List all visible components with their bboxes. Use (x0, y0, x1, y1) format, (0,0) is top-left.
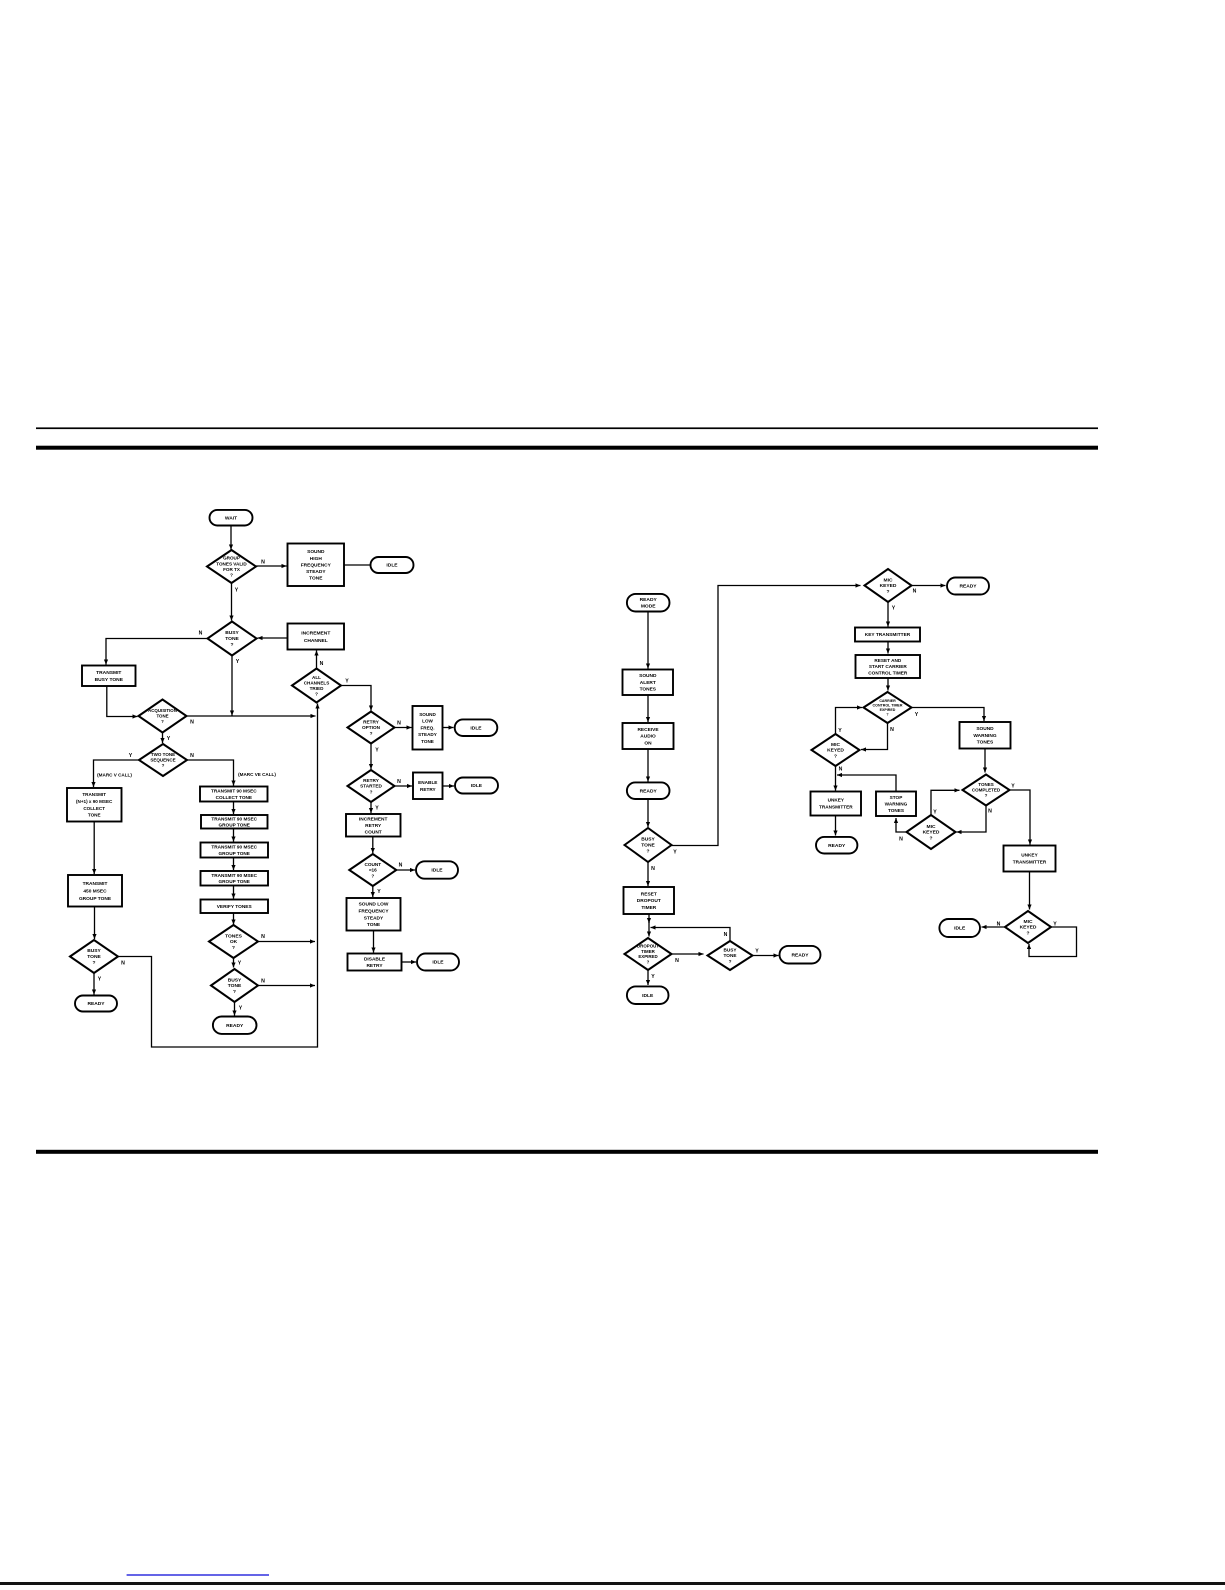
svg-text:CARRIER: CARRIER (879, 699, 896, 703)
svg-text:?: ? (647, 959, 650, 964)
svg-text:STARTED: STARTED (360, 784, 382, 789)
svg-text:ENABLE: ENABLE (418, 780, 437, 785)
svg-text:Y: Y (1011, 784, 1015, 790)
svg-text:MODE: MODE (641, 604, 656, 610)
svg-text:MIC: MIC (884, 577, 893, 583)
svg-text:READY: READY (226, 1023, 244, 1029)
svg-text:SOUND: SOUND (639, 673, 657, 679)
svg-text:N: N (320, 661, 324, 667)
svg-text:TONE: TONE (87, 954, 101, 960)
svg-text:TRANSMIT 90 MSEC: TRANSMIT 90 MSEC (211, 873, 257, 878)
svg-text:?: ? (887, 589, 890, 595)
svg-text:KEYED: KEYED (1020, 925, 1037, 931)
svg-text:INCREMENT: INCREMENT (359, 816, 388, 822)
svg-text:RESET: RESET (641, 891, 657, 897)
svg-text:(MARC V CALL): (MARC V CALL) (97, 773, 132, 778)
svg-text:?: ? (315, 691, 318, 696)
svg-text:OPTION: OPTION (362, 725, 381, 730)
svg-text:TWO TONE: TWO TONE (151, 752, 175, 757)
svg-text:N: N (724, 932, 728, 938)
svg-text:FOR TX: FOR TX (223, 567, 241, 572)
svg-text:RETRY: RETRY (366, 963, 383, 969)
svg-text:START CARRIER: START CARRIER (869, 664, 908, 669)
svg-text:VERIFY TONES: VERIFY TONES (217, 904, 253, 910)
svg-text:IDLE: IDLE (954, 926, 966, 932)
svg-text:Y: Y (98, 977, 102, 983)
svg-text:(N+1) x 90 MSEC: (N+1) x 90 MSEC (76, 799, 113, 804)
svg-text:DISABLE: DISABLE (364, 956, 386, 962)
svg-text:N: N (397, 779, 401, 785)
svg-text:?: ? (370, 731, 373, 736)
svg-text:ACQUISITION: ACQUISITION (148, 708, 177, 713)
svg-text:TRANSMITTER: TRANSMITTER (819, 805, 853, 810)
svg-text:READY: READY (640, 788, 658, 794)
svg-text:COMPLETED: COMPLETED (972, 788, 1001, 793)
svg-text:RETRY: RETRY (363, 719, 380, 724)
svg-text:N: N (988, 809, 992, 815)
svg-text:IDLE: IDLE (642, 993, 654, 999)
svg-text:BUSY TONE: BUSY TONE (95, 677, 124, 683)
svg-text:Y: Y (651, 974, 655, 980)
svg-text:TRANSMIT 90 MSEC: TRANSMIT 90 MSEC (211, 816, 257, 821)
svg-text:?: ? (985, 793, 988, 798)
svg-text:?: ? (1027, 931, 1030, 937)
svg-text:RETRY: RETRY (365, 823, 382, 829)
svg-text:TRANSMIT: TRANSMIT (83, 881, 108, 887)
svg-text:MIC: MIC (831, 742, 840, 748)
svg-text:TONES: TONES (977, 740, 994, 746)
svg-text:N: N (261, 560, 265, 566)
svg-text:MIC: MIC (927, 824, 936, 830)
svg-text:RETRY: RETRY (420, 787, 437, 792)
svg-text:?: ? (647, 849, 650, 855)
svg-text:STEADY: STEADY (306, 569, 326, 575)
svg-text:FREQUENCY: FREQUENCY (358, 909, 389, 915)
svg-text:N: N (190, 720, 194, 726)
svg-text:TONES: TONES (225, 933, 242, 939)
svg-text:Y: Y (167, 736, 171, 742)
svg-text:TONE: TONE (225, 636, 239, 642)
svg-text:Y: Y (345, 679, 349, 685)
svg-text:TRANSMIT: TRANSMIT (96, 670, 121, 676)
svg-text:BUSY: BUSY (87, 948, 101, 954)
svg-text:IDLE: IDLE (386, 563, 398, 569)
svg-text:?: ? (162, 763, 165, 768)
svg-text:?: ? (930, 836, 933, 842)
svg-text:TONE: TONE (641, 843, 655, 849)
svg-text:READY: READY (828, 843, 846, 849)
svg-text:WAIT: WAIT (225, 515, 237, 521)
svg-text:RETRY: RETRY (363, 778, 380, 783)
svg-text:N: N (397, 721, 401, 727)
svg-text:BUSY: BUSY (228, 977, 242, 983)
svg-text:DROPOUT: DROPOUT (637, 944, 659, 949)
svg-text:Y: Y (375, 748, 379, 754)
svg-text:INCREMENT: INCREMENT (301, 631, 330, 637)
svg-text:N: N (890, 727, 894, 733)
svg-text:N: N (121, 961, 125, 967)
svg-text:=16: =16 (369, 868, 377, 873)
svg-text:KEY TRANSMITTER: KEY TRANSMITTER (865, 632, 911, 638)
svg-text:IDLE: IDLE (470, 725, 482, 731)
svg-text:IDLE: IDLE (471, 783, 483, 789)
svg-text:TIMER: TIMER (641, 949, 655, 954)
svg-text:TRANSMIT 90 MSEC: TRANSMIT 90 MSEC (211, 845, 257, 850)
svg-text:SOUND: SOUND (419, 712, 436, 717)
svg-text:BUSY: BUSY (641, 837, 655, 843)
svg-text:TONE: TONE (309, 576, 323, 582)
svg-text:TONE: TONE (88, 813, 101, 818)
svg-text:TONE: TONE (724, 953, 737, 958)
svg-text:OK: OK (230, 939, 238, 945)
svg-text:N: N (399, 863, 403, 869)
svg-text:N: N (651, 866, 655, 872)
svg-text:HIGH: HIGH (310, 556, 323, 562)
svg-text:GROUP TONE: GROUP TONE (219, 851, 250, 856)
svg-text:Y: Y (838, 728, 842, 734)
svg-text:BUSY: BUSY (225, 630, 239, 636)
svg-text:CHANNELS: CHANNELS (304, 680, 330, 685)
svg-text:EXPIRED: EXPIRED (880, 708, 896, 712)
svg-text:READY: READY (640, 597, 658, 603)
svg-text:TONES: TONES (888, 808, 904, 813)
svg-text:UNKEY: UNKEY (828, 798, 845, 803)
svg-text:?: ? (729, 959, 732, 964)
svg-text:KEYED: KEYED (880, 583, 897, 589)
svg-text:CONTROL TIMER: CONTROL TIMER (868, 671, 908, 676)
svg-text:N: N (899, 837, 903, 843)
svg-text:Y: Y (673, 850, 677, 856)
svg-text:SOUND LOW: SOUND LOW (359, 902, 389, 908)
svg-text:AUDIO: AUDIO (640, 734, 656, 740)
svg-text:?: ? (886, 713, 888, 717)
svg-text:Y: Y (239, 1006, 243, 1012)
svg-text:N: N (190, 753, 194, 759)
svg-text:KEYED: KEYED (827, 748, 844, 754)
svg-text:Y: Y (915, 712, 919, 718)
svg-text:?: ? (834, 754, 837, 760)
svg-text:BUSY: BUSY (723, 948, 737, 953)
svg-text:?: ? (93, 960, 96, 966)
svg-text:?: ? (370, 789, 373, 794)
svg-text:TONE: TONE (367, 922, 381, 928)
svg-text:TRANSMIT: TRANSMIT (82, 792, 106, 797)
svg-text:FREQ.: FREQ. (420, 725, 434, 730)
svg-text:?: ? (371, 873, 374, 878)
svg-text:COUNT: COUNT (365, 830, 382, 836)
svg-text:SOUND: SOUND (307, 549, 325, 555)
svg-text:N: N (997, 922, 1001, 928)
svg-text:READY: READY (87, 1001, 105, 1007)
svg-text:GROUP: GROUP (223, 556, 240, 561)
svg-text:N: N (261, 934, 265, 940)
svg-text:?: ? (233, 989, 236, 995)
svg-text:?: ? (230, 573, 233, 578)
svg-text:GROUP TONE: GROUP TONE (79, 896, 112, 902)
svg-text:?: ? (161, 719, 164, 724)
svg-text:STEADY: STEADY (418, 732, 437, 737)
svg-text:CONTROL TIMER: CONTROL TIMER (873, 703, 903, 707)
svg-text:RESET AND: RESET AND (874, 658, 902, 663)
svg-text:STOP: STOP (890, 795, 903, 800)
svg-text:N: N (261, 979, 265, 985)
svg-text:TONE: TONE (156, 714, 168, 719)
svg-text:SOUND: SOUND (976, 726, 994, 732)
svg-text:LOW: LOW (422, 719, 433, 724)
svg-text:TONES VALID: TONES VALID (216, 561, 247, 566)
svg-text:Y: Y (377, 889, 381, 895)
svg-text:Y: Y (129, 753, 133, 759)
svg-text:GROUP TONE: GROUP TONE (219, 823, 250, 828)
svg-text:450 MSEC: 450 MSEC (83, 888, 107, 894)
svg-text:READY: READY (791, 952, 809, 958)
svg-text:COLLECT: COLLECT (83, 806, 105, 811)
svg-text:FREQUENCY: FREQUENCY (301, 562, 332, 568)
svg-text:Y: Y (892, 606, 896, 612)
svg-text:Y: Y (1053, 922, 1057, 928)
svg-text:N: N (675, 958, 679, 964)
svg-text:RECEIVE: RECEIVE (637, 727, 659, 733)
svg-text:(MARC VE CALL): (MARC VE CALL) (238, 772, 276, 777)
svg-text:STEADY: STEADY (364, 915, 384, 921)
svg-text:N: N (913, 589, 917, 595)
svg-text:EXPIRED: EXPIRED (638, 954, 657, 959)
svg-text:?: ? (231, 642, 234, 648)
svg-text:TRANSMITTER: TRANSMITTER (1013, 860, 1047, 865)
svg-text:COUNT: COUNT (364, 862, 381, 867)
svg-text:Y: Y (235, 588, 239, 594)
svg-text:Y: Y (236, 659, 240, 665)
svg-text:?: ? (232, 945, 235, 951)
svg-text:TONE: TONE (228, 983, 242, 989)
svg-text:TONES: TONES (978, 782, 993, 787)
svg-text:Y: Y (755, 949, 759, 955)
svg-text:GROUP TONE: GROUP TONE (219, 879, 250, 884)
svg-text:N: N (839, 767, 843, 773)
svg-text:WARNING: WARNING (973, 733, 996, 739)
svg-text:Y: Y (238, 961, 242, 967)
svg-text:ON: ON (644, 740, 652, 746)
svg-text:TONE: TONE (421, 739, 434, 744)
svg-text:WARNING: WARNING (885, 801, 908, 806)
svg-text:IDLE: IDLE (432, 960, 444, 966)
svg-text:IDLE: IDLE (431, 868, 443, 874)
svg-text:UNKEY: UNKEY (1021, 853, 1038, 858)
svg-text:CHANNEL: CHANNEL (304, 638, 328, 644)
svg-text:ALL: ALL (312, 675, 321, 680)
svg-text:SEQUENCE: SEQUENCE (150, 758, 175, 763)
svg-text:KEYED: KEYED (923, 830, 940, 836)
svg-text:COLLECT TONE: COLLECT TONE (216, 795, 252, 800)
svg-text:TIMER: TIMER (641, 905, 656, 911)
svg-text:DROPOUT: DROPOUT (637, 898, 661, 904)
svg-text:Y: Y (933, 810, 937, 816)
svg-text:TONES: TONES (640, 687, 657, 693)
svg-text:TRANSMIT 90 MSEC: TRANSMIT 90 MSEC (211, 789, 257, 794)
svg-text:READY: READY (959, 584, 977, 590)
svg-text:Y: Y (375, 806, 379, 812)
svg-text:N: N (199, 631, 203, 637)
svg-text:TRIED: TRIED (310, 686, 324, 691)
svg-text:MIC: MIC (1024, 919, 1033, 925)
svg-text:ALERT: ALERT (640, 680, 656, 686)
